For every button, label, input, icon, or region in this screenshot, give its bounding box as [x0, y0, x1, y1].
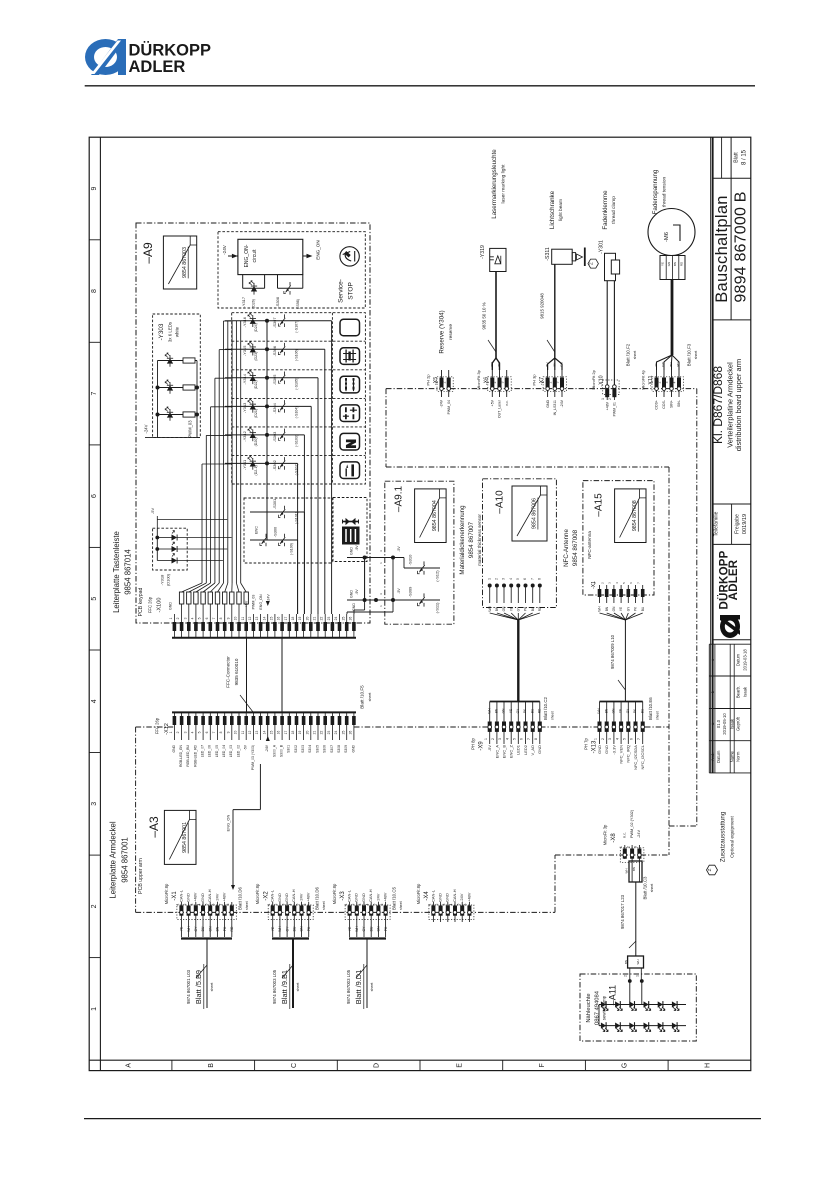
svg-text:S303: S303 [301, 745, 305, 753]
caption Fadenklemme [602, 190, 617, 230]
svg-text:RD: RD [538, 606, 542, 611]
drawing frame border [89, 137, 751, 1070]
svg-text:GND: GND [200, 893, 205, 902]
svg-text:S308: S308 [337, 745, 341, 753]
svg-text:4: 4 [91, 699, 98, 703]
svg-text:-24V: -24V [267, 594, 271, 602]
svg-text:Blatt /9.B1: Blatt /9.B1 [280, 970, 289, 1004]
svg-text:BU: BU [369, 926, 373, 931]
svg-text:4: 4 [615, 738, 619, 740]
svg-text:-Y318: -Y318 [159, 574, 164, 585]
svg-text:-Y312: -Y312 [242, 431, 247, 441]
svg-text:-X3: -X3 [340, 891, 346, 901]
svg-text:21: 21 [313, 731, 317, 735]
caption Reserve (Y304) [439, 310, 454, 353]
svg-text:2: 2 [601, 738, 605, 740]
svg-text:ENG_ON: ENG_ON [259, 594, 263, 610]
svg-text:6: 6 [380, 903, 384, 905]
svg-text:22: 22 [320, 731, 324, 735]
svg-text:Blatt: Blatt [734, 152, 740, 163]
svg-text:Service-: Service- [337, 279, 344, 303]
svg-text:ENC: ENC [254, 526, 258, 534]
svg-text:1: 1 [619, 846, 623, 848]
motor -M6 [648, 209, 695, 256]
svg-text:-5V: -5V [244, 744, 248, 750]
svg-text:(D21): (D21) [254, 409, 258, 418]
svg-text:8 / 15: 8 / 15 [742, 149, 748, 165]
LED -Y312 and switch -S303 row [225, 427, 304, 614]
cable -X3 with sheet ref /9.D1 [346, 939, 386, 1010]
svg-text:9874 867003 L05: 9874 867003 L05 [272, 969, 277, 1004]
svg-text:c: c [710, 659, 715, 661]
svg-text:thread tension: thread tension [662, 176, 668, 207]
svg-text:S304: S304 [308, 745, 312, 753]
svg-text:sheet: sheet [694, 351, 698, 360]
svg-text:Bearb.: Bearb. [735, 686, 740, 698]
svg-text:MicroFit 8p: MicroFit 8p [255, 883, 260, 904]
svg-text:3: 3 [608, 582, 612, 584]
wire bus from keypad rows to resistors [202, 321, 241, 583]
svg-text:1: 1 [379, 605, 383, 607]
svg-text:16: 16 [277, 617, 281, 621]
svg-text:5: 5 [198, 617, 202, 619]
X12 signal labels [172, 736, 355, 770]
svg-text:S300_B: S300_B [280, 744, 284, 757]
svg-text:PWM_01: PWM_01 [613, 402, 617, 416]
ENG_ON output arrow [303, 240, 321, 259]
svg-text:BN: BN [495, 606, 499, 611]
svg-text:sheet: sheet [210, 983, 214, 992]
svg-text:BU: BU [201, 926, 205, 931]
svg-text:S309: S309 [344, 745, 348, 753]
svg-text:(-S104): (-S104) [294, 406, 298, 418]
keypad cell table [232, 313, 366, 484]
svg-text:-S307: -S307 [272, 318, 277, 328]
svg-text:21: 21 [313, 617, 317, 621]
svg-text:-5V: -5V [150, 508, 155, 515]
svg-text:(-S12): (-S12) [434, 570, 439, 582]
svg-text:PWM_04: PWM_04 [447, 400, 451, 414]
svg-text:ENG_ON-: ENG_ON- [244, 244, 250, 267]
svg-text:LED_06: LED_06 [208, 745, 212, 757]
distribution board outline (upper strip) [386, 389, 697, 467]
svg-text:-24V: -24V [298, 893, 303, 902]
NFC board -A15 outline [583, 481, 654, 595]
svg-text:RGB-LED_BU: RGB-LED_BU [186, 744, 190, 766]
svg-text:sheet: sheet [322, 901, 326, 910]
svg-text:17: 17 [284, 617, 288, 621]
svg-text:3: 3 [358, 903, 362, 905]
svg-text:6: 6 [303, 903, 307, 905]
svg-text:-9V: -9V [355, 545, 359, 551]
svg-text:BK: BK [497, 362, 501, 366]
connector -X12 FFC 26p [155, 712, 357, 740]
Service-STOP symbol [337, 247, 359, 303]
svg-text:RD: RD [537, 708, 541, 713]
svg-text:-Y316: -Y316 [242, 317, 247, 327]
svg-text:FFC 26p: FFC 26p [155, 717, 160, 734]
svg-text:4: 4 [505, 738, 509, 740]
svg-text:12: 12 [248, 731, 252, 735]
svg-text:-24V: -24V [222, 244, 227, 255]
svg-text:PWM_03: PWM_03 [188, 420, 193, 438]
svg-text:8: 8 [537, 578, 541, 580]
svg-text:YE: YE [509, 709, 513, 713]
svg-text:9: 9 [226, 617, 230, 619]
svg-text:9815 920048: 9815 920048 [540, 293, 545, 319]
svg-text:4: 4 [191, 731, 195, 733]
svg-text:+5V: +5V [491, 399, 495, 406]
svg-text:-X1: -X1 [591, 581, 597, 589]
svg-text:BN: BN [669, 362, 673, 366]
svg-text:WH: WH [625, 869, 629, 874]
svg-text:YE: YE [619, 709, 623, 713]
svg-text:7: 7 [212, 731, 216, 733]
svg-text:-3.3V: -3.3V [611, 745, 616, 755]
svg-text:RD: RD [676, 362, 680, 367]
svg-text:A: A [126, 1063, 133, 1068]
svg-text:4: 4 [615, 582, 619, 584]
frame row letters A-H (bottom margin) [126, 1060, 712, 1070]
connector -X10 MicroFit 2p [591, 369, 619, 416]
part number box 9854 867006 [512, 486, 547, 541]
title block border [711, 137, 751, 773]
svg-text:4: 4 [365, 903, 369, 905]
svg-text:GN: GN [502, 606, 506, 611]
svg-text:MicroFit 3p: MicroFit 3p [476, 369, 481, 390]
svg-text:Blatt /10.F2: Blatt /10.F2 [626, 343, 631, 366]
X100 supply labels [245, 594, 357, 611]
svg-text:PCB keypad: PCB keypad [138, 587, 144, 616]
svg-text:-Y315: -Y315 [242, 346, 247, 356]
svg-text:ENC_Z: ENC_Z [509, 744, 514, 758]
svg-text:0019/19: 0019/19 [742, 514, 748, 534]
svg-text:2: 2 [608, 398, 612, 400]
svg-text:GND: GND [546, 400, 550, 408]
svg-text:-S305: -S305 [272, 375, 277, 385]
svg-text:(D24): (D24) [254, 323, 258, 332]
svg-text:-24V: -24V [637, 830, 641, 838]
svg-text:2: 2 [491, 738, 495, 740]
svg-text:white: white [175, 326, 180, 337]
svg-text:2: 2 [658, 381, 662, 383]
switch only rows -S301 / -S300 dashed box [244, 498, 332, 614]
svg-text:YE: YE [180, 926, 184, 931]
svg-text:5: 5 [622, 582, 626, 584]
svg-text:WH: WH [355, 926, 359, 932]
svg-text:MicroFit 3p: MicroFit 3p [603, 824, 608, 845]
svg-text:3: 3 [91, 802, 98, 806]
svg-text:thread clamp: thread clamp [611, 196, 617, 224]
svg-text:-S303: -S303 [272, 432, 277, 442]
svg-text:Freigabe: Freigabe [734, 514, 740, 534]
svg-text:–A3: –A3 [147, 816, 161, 838]
-24V supply arrow into ENG_ON block [222, 244, 238, 258]
board outline X12/X9/X13 edge [136, 726, 669, 728]
svg-text:6: 6 [520, 738, 524, 740]
svg-text:CAN-L: CAN-L [178, 889, 183, 902]
svg-text:6: 6 [630, 738, 634, 740]
RGB LED -Y318 (D100) [150, 508, 232, 587]
svg-text:-X12: -X12 [164, 723, 170, 735]
ENG_ON circuit block [238, 239, 303, 274]
svg-text:2: 2 [274, 903, 278, 905]
svg-text:-24V: -24V [265, 744, 269, 752]
sheet ref Blatt /10.D6 at X2 [315, 887, 327, 910]
svg-text:3: 3 [281, 903, 285, 905]
svg-text:PK: PK [524, 606, 528, 611]
svg-text:14: 14 [262, 617, 266, 621]
svg-text:2: 2 [493, 381, 497, 383]
svg-text:5: 5 [456, 903, 460, 905]
svg-text:-Y303: -Y303 [158, 323, 165, 340]
svg-text:5: 5 [516, 578, 520, 580]
svg-text:WH: WH [490, 362, 494, 367]
svg-text:3: 3 [379, 593, 383, 595]
svg-text:Norm: Norm [735, 751, 740, 762]
svg-text:3: 3 [190, 903, 194, 905]
svg-text:3: 3 [183, 617, 187, 619]
svg-text:GY: GY [517, 606, 521, 611]
svg-text:GN: GN [667, 262, 671, 267]
svg-text:GND: GND [354, 893, 359, 902]
svg-text:3x 6 LEDs: 3x 6 LEDs [168, 321, 173, 342]
svg-text:MicroFit 8p: MicroFit 8p [332, 883, 337, 904]
svg-text:RGB-LED_GN: RGB-LED_GN [179, 744, 183, 767]
svg-text:6: 6 [91, 494, 98, 498]
svg-text:9874 867009 L10: 9874 867009 L10 [610, 634, 615, 669]
svg-text:24: 24 [334, 731, 338, 735]
svg-text:reserve: reserve [448, 324, 454, 340]
connector -X4 MicroFit 8p (optional) [416, 883, 474, 922]
svg-text:BU: BU [640, 708, 644, 713]
sheet ref Blatt /10.D6 at X1 [238, 887, 250, 910]
svg-text:n.c.: n.c. [623, 832, 627, 838]
svg-text:BU: BU [545, 362, 549, 366]
svg-text:GY: GY [362, 926, 366, 932]
svg-text:15: 15 [270, 731, 274, 735]
svg-text:(-S101): (-S101) [294, 512, 298, 524]
lamp LED strings [599, 1001, 686, 1032]
connector -X8 MicroFit 3p [603, 809, 644, 862]
resistor row above X100 [179, 583, 248, 614]
svg-text:9854 867007: 9854 867007 [468, 521, 475, 558]
svg-text:S307: S307 [330, 745, 334, 753]
svg-text:-Y301: -Y301 [598, 240, 604, 254]
svg-text:WH: WH [598, 606, 602, 612]
svg-text:2: 2 [176, 731, 180, 733]
svg-text:1: 1 [379, 562, 383, 564]
svg-text:GND: GND [349, 547, 353, 555]
svg-text:B: B [208, 1063, 215, 1068]
svg-text:YE: YE [619, 607, 623, 611]
LED array box -Y303 [153, 314, 201, 438]
title field Kl. D867/D868 section [711, 359, 751, 504]
svg-text:-5V: -5V [397, 588, 401, 594]
board outline right channel [669, 389, 697, 855]
svg-text:9: 9 [226, 731, 230, 733]
svg-text:sheet: sheet [551, 711, 555, 720]
caption Leiterplatte Armdeckel [109, 821, 144, 898]
svg-text:-S301: -S301 [272, 499, 277, 509]
svg-text:Blatt /9.D1: Blatt /9.D1 [354, 970, 363, 1005]
svg-text:1: 1 [428, 903, 432, 905]
svg-text:16: 16 [277, 731, 281, 735]
svg-text:BN: BN [604, 708, 608, 713]
svg-text:–A9.1: –A9.1 [394, 485, 405, 512]
svg-text:8: 8 [534, 738, 538, 740]
svg-text:ENC_A: ENC_A [494, 745, 499, 759]
light barrier -S311 [545, 247, 585, 266]
svg-text:6: 6 [205, 731, 209, 733]
svg-text:sheet: sheet [368, 693, 372, 702]
svg-text:-X11: -X11 [648, 376, 654, 387]
svg-text:distribution board upper arm: distribution board upper arm [734, 359, 743, 451]
svg-text:Z: Z [707, 868, 712, 871]
svg-text:Fadenklemme: Fadenklemme [602, 190, 609, 230]
svg-text:2: 2 [601, 582, 605, 584]
svg-text:3: 3 [379, 550, 383, 552]
svg-text:+5V: +5V [245, 600, 249, 607]
svg-text:-S300: -S300 [272, 526, 277, 537]
svg-text:NFC-Antenne: NFC-Antenne [563, 529, 570, 567]
svg-text:WH: WH [187, 926, 191, 932]
svg-text:7: 7 [530, 578, 534, 580]
svg-text:9: 9 [91, 186, 98, 190]
FFC cable between X100 and X12 [226, 638, 282, 713]
svg-text:5: 5 [623, 738, 627, 740]
svg-text:(-S107): (-S107) [294, 321, 298, 333]
svg-text:BU: BU [641, 606, 645, 611]
svg-text:MicroFit 8p: MicroFit 8p [164, 883, 169, 904]
connector -X1 MicroFit 8p [164, 883, 236, 937]
svg-text:3: 3 [608, 738, 612, 740]
svg-text:sheet: sheet [296, 983, 300, 992]
svg-text:GND: GND [284, 893, 289, 902]
svg-text:Z: Z [589, 262, 594, 265]
frame column numbers 9-1 (left margin) [89, 186, 100, 1010]
svg-text:GND: GND [597, 745, 602, 754]
laser diode -Y319 [480, 245, 506, 272]
LED -Y314 and switch -S305 row [225, 370, 318, 614]
svg-text:2: 2 [435, 903, 439, 905]
svg-text:WH: WH [488, 606, 492, 612]
svg-text:GND: GND [445, 893, 450, 902]
svg-text:18: 18 [291, 731, 295, 735]
svg-text:GN: GN [560, 362, 564, 367]
svg-text:laser marking light: laser marking light [501, 164, 507, 204]
svg-text:2: 2 [548, 381, 552, 383]
svg-text:+48V: +48V [466, 892, 471, 902]
ENG_ON wire from X12 to X1 [225, 764, 260, 890]
connector -X11 MicroFit 4p [640, 369, 683, 409]
svg-text:25: 25 [341, 617, 345, 621]
cable -A10 to -X9 [487, 613, 541, 722]
svg-text:BN: BN [216, 926, 220, 931]
title block Dürkopp Adler logo [713, 550, 751, 639]
svg-text:7: 7 [219, 903, 223, 905]
svg-text:RGB-LED_RD: RGB-LED_RD [193, 744, 197, 766]
svg-text:6: 6 [464, 903, 468, 905]
svg-text:5: 5 [373, 903, 377, 905]
svg-text:20: 20 [305, 617, 309, 621]
svg-text:9835 610010: 9835 610010 [234, 658, 239, 685]
svg-text:Nähleuchte: Nähleuchte [586, 993, 592, 1022]
svg-text:9854 867001: 9854 867001 [182, 822, 188, 853]
thread clamp solenoid -Y301 [598, 240, 619, 281]
svg-text:10: 10 [234, 731, 238, 735]
svg-text:(-S103): (-S103) [294, 435, 298, 447]
svg-text:GN: GN [300, 926, 304, 932]
svg-text:6: 6 [205, 617, 209, 619]
svg-text:LED_02: LED_02 [236, 745, 240, 757]
svg-text:RD: RD [230, 926, 234, 931]
svg-text:4: 4 [449, 903, 453, 905]
svg-text:2: 2 [442, 381, 446, 383]
svg-text:Blatt /10.C2: Blatt /10.C2 [543, 697, 548, 720]
Dürkopp Adler company logo [85, 39, 211, 76]
svg-text:(D2-1): (D2-1) [254, 465, 258, 475]
svg-text:IN_LS311: IN_LS311 [553, 400, 557, 415]
sewing lamp -A11 outline [580, 974, 696, 1041]
svg-text:LED1: LED1 [516, 744, 521, 755]
svg-text:(D22): (D22) [254, 380, 258, 389]
svg-text:F: F [539, 1063, 546, 1067]
svg-text:11: 11 [241, 731, 245, 735]
svg-text:Leiterplatte Tastenleiste: Leiterplatte Tastenleiste [112, 531, 121, 613]
svg-text:-24V: -24V [459, 893, 464, 902]
svg-text:19: 19 [298, 617, 302, 621]
wire laser to -X6 [481, 272, 501, 371]
svg-text:-24V: -24V [144, 424, 149, 433]
svg-text:RD: RD [679, 261, 683, 266]
svg-text:9854 867008: 9854 867008 [572, 529, 579, 566]
svg-text:NFC-antenna: NFC-antenna [587, 531, 592, 559]
svg-text:WH: WH [597, 708, 601, 714]
junction wires to -A9.1 sensors [347, 547, 404, 614]
svg-text:5: 5 [296, 903, 300, 905]
revision table [709, 644, 751, 773]
svg-text:(-S102): (-S102) [294, 463, 298, 475]
svg-text:STOP: STOP [347, 282, 354, 300]
svg-text:18: 18 [291, 617, 295, 621]
svg-text:GND: GND [604, 745, 609, 754]
connector -X13 PH 7p [584, 722, 646, 770]
svg-text:-X4: -X4 [424, 891, 430, 901]
svg-text:S301: S301 [287, 745, 291, 753]
svg-text:YE: YE [661, 262, 665, 266]
svg-text:LED2: LED2 [523, 744, 528, 755]
svg-text:(-S105): (-S105) [294, 378, 298, 390]
cable -X2 with sheet ref /9.B1 [272, 939, 309, 1010]
svg-text:+48V: +48V [383, 892, 388, 902]
svg-text:Leiterplatte Armdeckel: Leiterplatte Armdeckel [109, 821, 118, 898]
svg-text:8: 8 [91, 289, 98, 293]
svg-text:LED_07: LED_07 [201, 745, 205, 757]
svg-text:Blatt /10.D6: Blatt /10.D6 [238, 887, 243, 910]
svg-text:GN: GN [502, 708, 506, 713]
svg-text:+48V: +48V [306, 892, 311, 902]
part number box 9854 867004 [415, 489, 447, 543]
svg-text:-S311: -S311 [545, 247, 551, 261]
svg-text:LED_05: LED_05 [215, 745, 219, 757]
svg-text:2: 2 [623, 975, 627, 977]
svg-text:Blatt /10.E6: Blatt /10.E6 [648, 697, 653, 720]
svg-text:GY: GY [285, 926, 289, 932]
svg-text:3: 3 [500, 381, 504, 383]
svg-text:9854 867006: 9854 867006 [532, 498, 538, 529]
svg-text:1: 1 [169, 617, 173, 619]
